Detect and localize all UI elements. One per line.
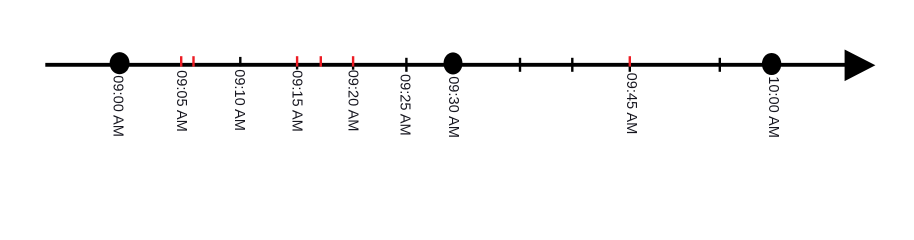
tick 09:17 (red, unlabeled) <box>320 56 322 66</box>
tick 09:06 (red, unlabeled) <box>192 56 194 66</box>
tick 09:35 (black, crossing, unlabeled) <box>519 58 521 72</box>
svg-text:09:30 AM: 09:30 AM <box>445 76 461 138</box>
svg-text:10:00 AM: 10:00 AM <box>765 76 781 138</box>
node 09:00 dot <box>110 52 130 74</box>
tick 09:40 (black, crossing, unlabeled) <box>571 58 573 72</box>
svg-text:09:10 AM: 09:10 AM <box>231 69 247 131</box>
wire: timeline axis line <box>45 63 848 67</box>
tick 09:45 (red above, black below) <box>629 56 631 72</box>
svg-text:09:20 AM: 09:20 AM <box>345 70 361 132</box>
tick 09:05 (red) <box>180 56 182 66</box>
svg-text:09:00 AM: 09:00 AM <box>110 75 126 137</box>
svg-text:09:25 AM: 09:25 AM <box>397 74 413 136</box>
tick 09:10 (black, above axis) <box>239 57 241 67</box>
svg-text:09:45 AM: 09:45 AM <box>623 73 639 135</box>
svg-text:09:15 AM: 09:15 AM <box>289 70 305 132</box>
tick 09:15 (red above, black stub below) <box>296 56 298 69</box>
svg-text:09:05 AM: 09:05 AM <box>173 70 189 132</box>
tick 09:25 (black, crossing) <box>405 58 407 72</box>
tick 09:55 (black, crossing, unlabeled) <box>719 58 721 72</box>
node 09:30 dot <box>444 52 463 74</box>
arrowhead at right end of axis <box>845 50 876 82</box>
tick 09:20 (red above, black stub below) <box>352 56 354 69</box>
node 10:00 dot <box>762 53 781 75</box>
